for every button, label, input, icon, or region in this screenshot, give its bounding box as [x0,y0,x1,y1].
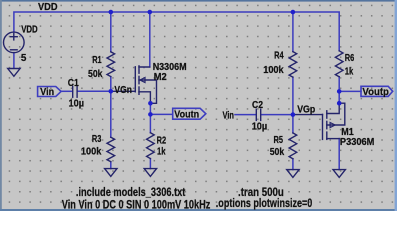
svg-text:R2: R2 [157,135,167,146]
svg-text:Vin Vin 0 DC 0 SIN 0 100mV 10k: Vin Vin 0 DC 0 SIN 0 100mV 10kHz [62,197,211,211]
wire R1 top [110,12,112,52]
ground (below R3) [105,169,117,177]
wire R3 bottom to ground [110,162,112,169]
svg-text:VGn: VGn [114,85,131,96]
node M2 source [148,101,153,106]
wire M2 source node to Voutn node [149,103,151,114]
ground (below R5) [287,170,299,178]
ground (below R2) [144,169,156,177]
wire VDD source to ground [13,53,15,69]
wire Vin to C1 [61,90,73,92]
svg-text:1k: 1k [157,146,166,157]
svg-text:R6: R6 [345,53,355,64]
wire Voutp node to flag [339,90,361,92]
svg-text:10µ: 10µ [252,121,268,132]
svg-text:R3: R3 [92,134,102,145]
node Voutp [337,89,342,94]
node rail-M2 drain [148,10,153,15]
node VGn [109,89,114,94]
wire Voutp node to M1 source node [338,91,340,103]
resistor R1 [107,52,115,77]
svg-text:.options plotwinsize=0: .options plotwinsize=0 [216,196,313,210]
svg-text:R1: R1 [92,55,102,66]
ground (below VDD source) [8,69,20,77]
wire VDD rail [14,12,339,51]
wire R6 bottom to Voutp node [338,77,340,92]
wire R4 bottom to VGp [292,77,294,114]
resistor R6 [335,51,343,77]
wire Voutn node to flag [150,113,172,115]
ground (below M1) [333,170,345,178]
wire M2 drain to rail [149,12,151,67]
wire C2 to VGp [261,114,293,116]
svg-text:R5: R5 [274,135,284,146]
svg-text:C1: C1 [68,78,79,89]
svg-text:VDD: VDD [21,25,38,36]
wire Vin2 to C2 [235,114,256,116]
wire VGp to R5 [292,115,294,133]
flag Voutp [361,86,393,96]
svg-text:P3306M: P3306M [340,137,375,148]
voltage source VDD [4,32,25,53]
node M1 source [337,101,342,106]
svg-text:100k: 100k [263,65,284,76]
svg-text:C2: C2 [252,100,263,111]
resistor R5 [289,133,297,159]
transistor M1 (PMOS P3306M) [293,103,345,139]
capacitor C2 [256,109,260,120]
svg-text:VGp: VGp [297,104,315,115]
svg-text:Voutn: Voutn [174,109,199,120]
node Voutn [148,112,153,117]
wire R1 bottom to VGn [110,77,112,92]
flag Vin [38,87,62,97]
svg-text:M2: M2 [154,72,167,83]
wire VGn to R3 [110,91,112,137]
wire M1 drain to ground [338,139,340,170]
wire R2 bottom to ground [149,159,151,169]
svg-text:Voutp: Voutp [362,87,389,98]
transistor M2 (NMOS N3306M) [111,66,157,103]
svg-text:Vin: Vin [40,87,54,98]
svg-text:10µ: 10µ [69,98,85,109]
svg-text:100k: 100k [81,147,102,158]
wire R5 bottom to ground [292,159,294,170]
node rail-R1 [109,10,114,15]
flag Voutn [173,108,206,119]
svg-text:Vin: Vin [223,110,235,121]
svg-text:50k: 50k [88,69,103,80]
resistor R3 [107,137,115,162]
svg-text:R4: R4 [274,50,284,61]
wire Voutn node to R2 [149,114,151,132]
capacitor C1 [73,86,77,97]
svg-text:50k: 50k [270,147,285,158]
wire C1 to VGn [78,90,111,92]
resistor R4 [289,52,297,78]
svg-text:1k: 1k [345,67,354,78]
svg-text:VDD: VDD [38,2,58,13]
node rail-R4 [291,10,296,15]
node VGp [291,112,296,117]
resistor R2 [147,133,155,159]
svg-text:5: 5 [21,53,27,64]
wire R4 top [292,12,294,52]
